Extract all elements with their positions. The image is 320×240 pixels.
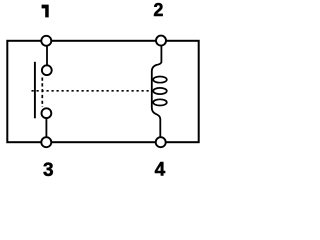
label pin 1 xyxy=(42,5,49,18)
coil L1 loop 2 xyxy=(153,88,167,94)
wire lower contact to terminal3 xyxy=(45,118,47,138)
wire terminal2 to coil / coil backbone / wire coil to terminal4 xyxy=(152,46,162,138)
terminal 1 xyxy=(41,36,51,46)
svg-text:2: 2 xyxy=(153,0,163,20)
relay case outline xyxy=(7,41,198,142)
coil L1 loop 3 xyxy=(153,99,167,105)
terminal 4 xyxy=(156,137,166,147)
lower contact circle xyxy=(42,108,52,118)
mechanical actuator dashed link (vertical) xyxy=(41,78,43,108)
svg-text:4: 4 xyxy=(155,159,166,180)
terminal 3 xyxy=(41,137,51,147)
mechanical linkage dotted line to coil xyxy=(32,90,149,92)
upper contact circle xyxy=(42,65,52,75)
coil L1 loop 1 xyxy=(153,77,167,83)
switch blade (movable contact lever) xyxy=(34,62,36,119)
wire terminal1 to upper contact xyxy=(46,46,48,66)
terminal 2 xyxy=(156,36,166,46)
svg-text:3: 3 xyxy=(43,160,54,180)
